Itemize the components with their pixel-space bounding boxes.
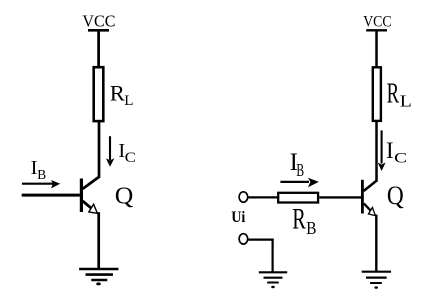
resistor RL (left) [94,67,104,121]
wire lower terminal to ground [248,239,274,273]
VCC power bar (right) [366,29,387,31]
svg-text:R: R [387,77,400,109]
input terminal (right, upper) [239,192,248,202]
svg-text:Q: Q [387,182,404,211]
current arrow IC (left) [106,136,115,167]
svg-text:B: B [37,167,46,182]
label IC (right) [386,138,407,166]
transistor Q1 (left) [80,177,99,214]
svg-text:B: B [306,218,316,238]
VCC power bar (left) [88,29,109,32]
label RB [292,203,316,238]
current arrow IB (right) [280,178,318,188]
wire RL to collector (left) [98,122,101,178]
label IB (left) [31,157,47,182]
transistor Q2 (right) [361,180,377,216]
label IB (right) [290,149,305,181]
wire terminal to RB [248,196,278,198]
svg-text:Ui: Ui [231,208,246,226]
svg-text:B: B [296,162,304,181]
wire emitter to ground (left) [97,212,100,269]
svg-text:I: I [386,138,394,163]
svg-text:C: C [125,150,136,166]
resistor RB [278,193,318,203]
wire base (left) [22,194,80,197]
resistor RL (right) [373,67,381,121]
wire RL to collector (right) [375,122,378,182]
svg-text:L: L [400,92,412,110]
svg-text:C: C [394,149,407,165]
label RL (left) [110,80,134,109]
label RL (right) [387,77,412,110]
wire RB to base (right) [319,196,362,198]
wire VCC to RL (right) [375,30,378,66]
label IC (left) [118,140,135,166]
svg-text:L: L [124,93,133,109]
input terminal (right, lower) [239,234,248,244]
svg-text:VCC: VCC [82,11,115,30]
ground (emitter right) [362,272,391,289]
current arrow IC (right) [378,130,386,171]
ground (input) [259,272,287,288]
svg-text:R: R [292,203,306,236]
ground (left) [79,269,118,285]
current arrow IB (left) [22,180,60,188]
svg-text:VCC: VCC [363,14,391,31]
svg-text:Q: Q [115,183,134,209]
wire emitter to ground (right) [375,215,377,272]
wire VCC to RL (left) [97,30,100,66]
